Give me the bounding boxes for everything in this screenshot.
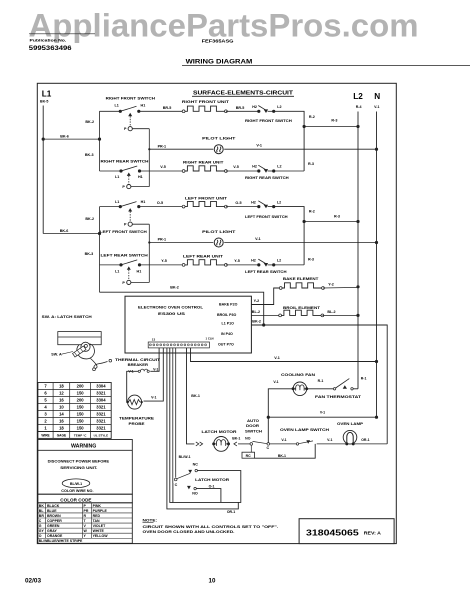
svg-text:NO: NO — [192, 492, 198, 496]
svg-text:PR-1: PR-1 — [158, 238, 166, 242]
wire BK-6 feed group2 — [43, 233, 99, 235]
svg-text:V-1: V-1 — [374, 105, 379, 109]
svg-text:V-5: V-5 — [233, 165, 239, 169]
svg-text:L1 P1O: L1 P1O — [222, 321, 235, 325]
svg-text:YELLOW: YELLOW — [93, 534, 109, 538]
svg-text:GY: GY — [39, 529, 45, 533]
svg-text:13: 13 — [152, 338, 156, 342]
svg-text:SURFACE-ELEMENTS-CIRCUIT: SURFACE-ELEMENTS-CIRCUIT — [193, 91, 294, 97]
svg-text:LEFT REAR UNIT: LEFT REAR UNIT — [183, 254, 224, 259]
svg-text:LATCH MOTOR: LATCH MOTOR — [202, 429, 237, 434]
wire R-2 — [274, 111, 304, 171]
connector strip — [148, 342, 209, 348]
svg-text:SERVICING UNIT.: SERVICING UNIT. — [60, 465, 97, 470]
wire unit to right rear switch H2 — [226, 170, 259, 172]
svg-text:L2: L2 — [353, 92, 363, 101]
svg-text:PR-1: PR-1 — [158, 144, 166, 148]
svg-text:BK-5: BK-5 — [40, 100, 48, 104]
svg-text:OVEN LAMP SWITCH: OVEN LAMP SWITCH — [280, 427, 329, 432]
svg-text:BK-6: BK-6 — [60, 229, 69, 233]
svg-text:12: 12 — [59, 391, 64, 396]
svg-text:BL/W-1: BL/W-1 — [70, 482, 82, 486]
svg-text:Publication No.: Publication No. — [30, 38, 67, 43]
wire R-3 group2 — [304, 221, 358, 223]
svg-text:ES300 US: ES300 US — [158, 311, 185, 316]
svg-text:RIGHT REAR SWITCH: RIGHT REAR SWITCH — [245, 175, 289, 180]
svg-text:RC: RC — [246, 454, 252, 458]
svg-text:BK-2: BK-2 — [85, 217, 94, 221]
svg-text:OR-1: OR-1 — [227, 510, 235, 514]
svg-text:R-3: R-3 — [308, 257, 314, 261]
svg-text:1 CLN: 1 CLN — [206, 337, 214, 341]
svg-text:ORANGE: ORANGE — [47, 534, 63, 538]
wire N bus — [376, 112, 378, 418]
wire lamp switch to oven lamp — [317, 443, 346, 445]
wire bundle drop 2 (probe) — [144, 348, 164, 401]
svg-text:3321: 3321 — [96, 419, 106, 424]
svg-text:150: 150 — [77, 391, 85, 396]
table wire gauge — [38, 383, 111, 432]
svg-text:R-3: R-3 — [308, 162, 314, 166]
svg-text:L1: L1 — [115, 175, 119, 179]
svg-text:REV: A: REV: A — [364, 530, 381, 535]
svg-text:3321: 3321 — [96, 391, 106, 396]
svg-text:IN P4O: IN P4O — [221, 332, 233, 336]
svg-text:RED: RED — [93, 514, 101, 518]
svg-text:BK-2: BK-2 — [170, 286, 179, 290]
svg-text:NO: NO — [245, 436, 251, 440]
svg-text:H1: H1 — [138, 175, 143, 179]
svg-text:COLOR WIRE NO.: COLOR WIRE NO. — [61, 489, 93, 493]
wire right rear L2 to R-3 vertical — [274, 170, 304, 172]
wire V-1 lamp row to N — [268, 416, 376, 418]
svg-text:L1: L1 — [115, 269, 119, 273]
svg-text:OUT P7O: OUT P7O — [218, 342, 234, 346]
wire BL-2 broil — [251, 314, 279, 316]
svg-text:RIGHT FRONT SWITCH: RIGHT FRONT SWITCH — [245, 118, 292, 123]
svg-text:C: C — [175, 483, 178, 487]
wire pilot to N group2 — [224, 242, 376, 244]
svg-text:WIRING DIAGRAM: WIRING DIAGRAM — [186, 58, 253, 65]
svg-text:L2: L2 — [277, 201, 281, 205]
frame border — [37, 83, 396, 543]
svg-text:BR: BR — [39, 514, 45, 518]
wire bundle drop 1 (breaker) — [150, 348, 159, 371]
wire switch box left vertical group2 — [99, 207, 101, 293]
svg-text:BL-2: BL-2 — [327, 310, 335, 314]
svg-text:V-1: V-1 — [274, 356, 280, 360]
wire bake to L2 — [323, 286, 358, 289]
svg-text:COPPER: COPPER — [47, 519, 62, 523]
wire L1 to left rear switch — [100, 264, 122, 266]
contact NO latch — [187, 486, 191, 490]
svg-text:3321: 3321 — [96, 412, 106, 417]
svg-text:OVEN LAMP: OVEN LAMP — [337, 421, 363, 426]
svg-text:PILOT LIGHT: PILOT LIGHT — [202, 229, 236, 234]
wire P linkage vertical group1 — [132, 128, 149, 130]
svg-text:BK-1: BK-1 — [191, 394, 200, 398]
svg-text:FEF365ASG: FEF365ASG — [202, 38, 234, 43]
svg-text:150: 150 — [77, 405, 85, 410]
latch switch tail wire — [91, 359, 108, 369]
svg-text:BAKE ELEMENT: BAKE ELEMENT — [283, 276, 319, 281]
svg-text:C: C — [266, 446, 269, 450]
svg-text:V-1: V-1 — [256, 144, 262, 148]
svg-text:V-1: V-1 — [281, 438, 286, 442]
svg-text:L1: L1 — [115, 200, 119, 204]
svg-text:L2: L2 — [277, 259, 281, 263]
svg-text:3304: 3304 — [96, 384, 106, 389]
svg-text:BROIL P3O: BROIL P3O — [217, 313, 237, 317]
svg-text:V-5: V-5 — [160, 165, 166, 169]
svg-text:RIGHT REAR UNIT: RIGHT REAR UNIT — [183, 160, 224, 165]
svg-text:BROIL ELEMENT: BROIL ELEMENT — [283, 305, 321, 310]
svg-text:02/03: 02/03 — [25, 578, 41, 585]
svg-text:VIOLET: VIOLET — [93, 524, 107, 528]
wire L1 to left front switch — [100, 206, 121, 208]
wire unit to left front switch H2 — [226, 206, 259, 208]
svg-text:L2: L2 — [277, 105, 281, 109]
svg-text:GREEN: GREEN — [47, 524, 60, 528]
svg-text:AUTO: AUTO — [247, 418, 259, 423]
svg-text:10: 10 — [209, 578, 216, 585]
svg-text:H1: H1 — [141, 104, 146, 108]
wire BK-2 surface feed — [100, 292, 264, 325]
svg-text:GAGE: GAGE — [57, 434, 66, 438]
svg-text:SW. A: LATCH SWITCH: SW. A: LATCH SWITCH — [42, 314, 92, 319]
wire unit to left rear switch H2 — [226, 264, 259, 266]
connector chevron right — [234, 442, 237, 446]
svg-text:FAN THERMOSTAT: FAN THERMOSTAT — [315, 394, 362, 399]
wire breaker left to probe — [127, 371, 139, 402]
wire O-1 — [196, 489, 221, 503]
svg-text:BAKE P2O: BAKE P2O — [219, 303, 238, 307]
svg-text:RIGHT FRONT SWITCH: RIGHT FRONT SWITCH — [106, 96, 156, 101]
wire pilot to N group1 — [224, 148, 376, 150]
wire bundle drop 6 (latch NC) — [175, 348, 177, 478]
svg-text:PR: PR — [84, 509, 89, 513]
table color code — [38, 494, 132, 503]
wire left rear L2 to R-3 vertical — [274, 264, 304, 266]
oven control EOC box — [125, 296, 251, 353]
wire PR-1 group2 — [149, 242, 213, 244]
svg-text:318045065: 318045065 — [306, 528, 359, 537]
svg-text:10: 10 — [59, 405, 64, 410]
switch latch motor assembly box — [173, 471, 241, 503]
wire R-2 group2 — [274, 207, 304, 265]
svg-text:LEFT FRONT UNIT: LEFT FRONT UNIT — [185, 196, 228, 201]
svg-text:14: 14 — [59, 412, 64, 417]
wire PR-1 — [149, 148, 213, 150]
svg-text:BK: BK — [39, 504, 45, 508]
svg-text:R-2: R-2 — [309, 115, 315, 119]
part number box — [299, 519, 394, 544]
svg-text:GRAY: GRAY — [47, 529, 57, 533]
svg-text:200: 200 — [77, 384, 85, 389]
svg-text:NOTE:: NOTE: — [143, 517, 158, 522]
svg-text:L1: L1 — [42, 90, 52, 99]
wire switch box left vertical group1 — [99, 111, 101, 171]
svg-text:LATCH MOTOR: LATCH MOTOR — [195, 477, 229, 482]
svg-text:RIGHT REAR SWITCH: RIGHT REAR SWITCH — [101, 158, 149, 163]
svg-text:BREAKER: BREAKER — [128, 362, 149, 367]
wire bundle drop 3 (OR-1 loop) — [167, 348, 238, 509]
svg-text:BK-2: BK-2 — [85, 120, 94, 124]
svg-text:PILOT LIGHT: PILOT LIGHT — [202, 136, 236, 141]
svg-text:BROWN: BROWN — [47, 514, 61, 518]
svg-text:V-1: V-1 — [320, 411, 325, 415]
svg-text:V-1: V-1 — [327, 438, 332, 442]
svg-text:BR-5: BR-5 — [236, 106, 245, 110]
svg-text:3321: 3321 — [96, 426, 106, 431]
svg-text:BLACK: BLACK — [47, 504, 60, 508]
thermistor temperature probe — [128, 395, 142, 409]
svg-text:LEFT REAR SWITCH: LEFT REAR SWITCH — [101, 253, 148, 258]
wire L1 bus — [42, 106, 44, 234]
svg-text:UL STYLE: UL STYLE — [94, 434, 108, 438]
svg-text:150: 150 — [77, 419, 85, 424]
svg-text:Y-5: Y-5 — [234, 259, 240, 263]
label BL/W-1 oval — [62, 479, 90, 488]
svg-text:BLUE: BLUE — [47, 509, 57, 513]
wire broil to L2 — [322, 314, 358, 316]
svg-text:OR-1: OR-1 — [361, 438, 369, 442]
svg-text:RIGHT FRONT UNIT: RIGHT FRONT UNIT — [182, 99, 230, 104]
warning box — [38, 440, 132, 495]
svg-text:PROBE: PROBE — [129, 421, 145, 426]
svg-text:H2: H2 — [251, 259, 256, 263]
svg-text:3321: 3321 — [96, 405, 106, 410]
svg-text:R-3: R-3 — [331, 118, 337, 122]
wire Y-2 bake — [251, 288, 279, 305]
wire BK-6 feed group1 — [43, 138, 99, 140]
svg-text:O-1: O-1 — [209, 484, 215, 488]
wire lamp to BK-2 drop — [354, 443, 387, 445]
svg-text:R-4: R-4 — [356, 105, 362, 109]
svg-text:V-1: V-1 — [273, 380, 278, 384]
svg-text:L1: L1 — [115, 104, 119, 108]
svg-text:DISCONNECT POWER BEFORE: DISCONNECT POWER BEFORE — [48, 458, 110, 463]
latch mechanism — [77, 344, 95, 359]
svg-text:WHITE: WHITE — [93, 529, 105, 533]
svg-text:150: 150 — [77, 412, 85, 417]
svg-text:BK-6: BK-6 — [60, 135, 69, 139]
svg-text:SWITCH: SWITCH — [245, 429, 262, 434]
wire fan left to junction — [268, 389, 292, 444]
svg-text:V-1: V-1 — [255, 237, 261, 241]
svg-text:WIRE: WIRE — [41, 434, 49, 438]
snubber RC — [250, 445, 252, 452]
wire BK-1 drop to latch motor — [187, 348, 195, 444]
svg-text:16: 16 — [59, 419, 64, 424]
svg-text:LEFT REAR SWITCH: LEFT REAR SWITCH — [245, 269, 287, 274]
svg-text:V-1: V-1 — [151, 395, 156, 399]
svg-text:R-1: R-1 — [361, 377, 367, 381]
svg-text:BLUE/WHITE STRIPE: BLUE/WHITE STRIPE — [47, 539, 83, 543]
svg-text:R-3: R-3 — [334, 214, 340, 218]
svg-text:H1: H1 — [141, 200, 146, 204]
wire BK-2 L1 feed to lamp circuit — [251, 325, 387, 444]
svg-text:V-1: V-1 — [153, 367, 158, 371]
svg-text:Y-2: Y-2 — [254, 299, 260, 303]
svg-text:H1: H1 — [137, 269, 142, 273]
svg-text:16: 16 — [59, 398, 64, 403]
svg-text:BK-2: BK-2 — [252, 320, 261, 324]
svg-text:WARNING: WARNING — [71, 443, 96, 449]
svg-text:COOLING FAN: COOLING FAN — [281, 372, 315, 377]
svg-text:PURPLE: PURPLE — [93, 509, 108, 513]
svg-text:PINK: PINK — [93, 504, 102, 508]
svg-text:ELECTRONIC OVEN CONTROL: ELECTRONIC OVEN CONTROL — [138, 305, 204, 310]
svg-text:O-5: O-5 — [235, 201, 241, 205]
svg-text:BK-3: BK-3 — [85, 153, 94, 157]
wire bundle drop 5 (latch C) — [172, 348, 174, 483]
wire R-3 group1 — [304, 126, 358, 128]
svg-text:5995363496: 5995363496 — [29, 46, 73, 52]
wire L1 to right front switch — [100, 110, 121, 112]
wire V-1 OUT to N — [191, 348, 377, 362]
svg-text:H2: H2 — [252, 165, 257, 169]
wire bundle drop 4 (O-1) — [170, 348, 173, 503]
publication header — [29, 33, 95, 35]
svg-text:Y-5: Y-5 — [161, 259, 167, 263]
svg-text:150: 150 — [77, 426, 85, 431]
svg-text:L2: L2 — [277, 165, 281, 169]
svg-text:TAN: TAN — [93, 519, 100, 523]
svg-text:H2: H2 — [251, 201, 256, 205]
svg-text:DOOR: DOOR — [246, 423, 259, 428]
svg-text:18: 18 — [59, 426, 64, 431]
svg-text:H2: H2 — [252, 105, 257, 109]
svg-text:BL/W-1: BL/W-1 — [179, 455, 191, 459]
wire unit to right front switch H2 — [226, 110, 259, 112]
svg-text:BK-3: BK-3 — [85, 252, 94, 256]
svg-text:R-2: R-2 — [309, 209, 315, 213]
svg-text:OVEN DOOR CLOSED AND UNLOCKED.: OVEN DOOR CLOSED AND UNLOCKED. — [143, 529, 235, 534]
svg-text:SW. A: SW. A — [51, 352, 62, 356]
svg-text:G: G — [39, 524, 42, 528]
svg-text:BR-5: BR-5 — [163, 106, 172, 110]
svg-text:LEFT FRONT SWITCH: LEFT FRONT SWITCH — [245, 214, 288, 219]
wire BK-1 lamp switch return — [255, 444, 316, 458]
svg-text:O-5: O-5 — [157, 201, 163, 205]
svg-text:TEMP °C: TEMP °C — [74, 434, 87, 438]
svg-text:18: 18 — [59, 384, 64, 389]
wire P linkage vertical group2 — [132, 223, 149, 225]
svg-text:R-1: R-1 — [318, 379, 324, 383]
svg-text:NC: NC — [193, 463, 199, 467]
svg-text:3304: 3304 — [96, 398, 106, 403]
connector chevrons left — [196, 442, 203, 446]
svg-text:Y-2: Y-2 — [328, 282, 334, 286]
svg-text:O: O — [39, 534, 42, 538]
wire L2 bus — [357, 112, 359, 389]
svg-text:BL-2: BL-2 — [252, 310, 260, 314]
svg-text:BK-1: BK-1 — [278, 454, 286, 458]
svg-text:TEMPERATURE: TEMPERATURE — [119, 415, 154, 420]
wire L1 to right rear switch — [100, 170, 122, 172]
svg-text:200: 200 — [77, 398, 85, 403]
svg-text:LEFT FRONT SWITCH: LEFT FRONT SWITCH — [100, 229, 147, 234]
svg-text:N: N — [374, 92, 380, 101]
svg-text:BK-1: BK-1 — [232, 436, 240, 440]
